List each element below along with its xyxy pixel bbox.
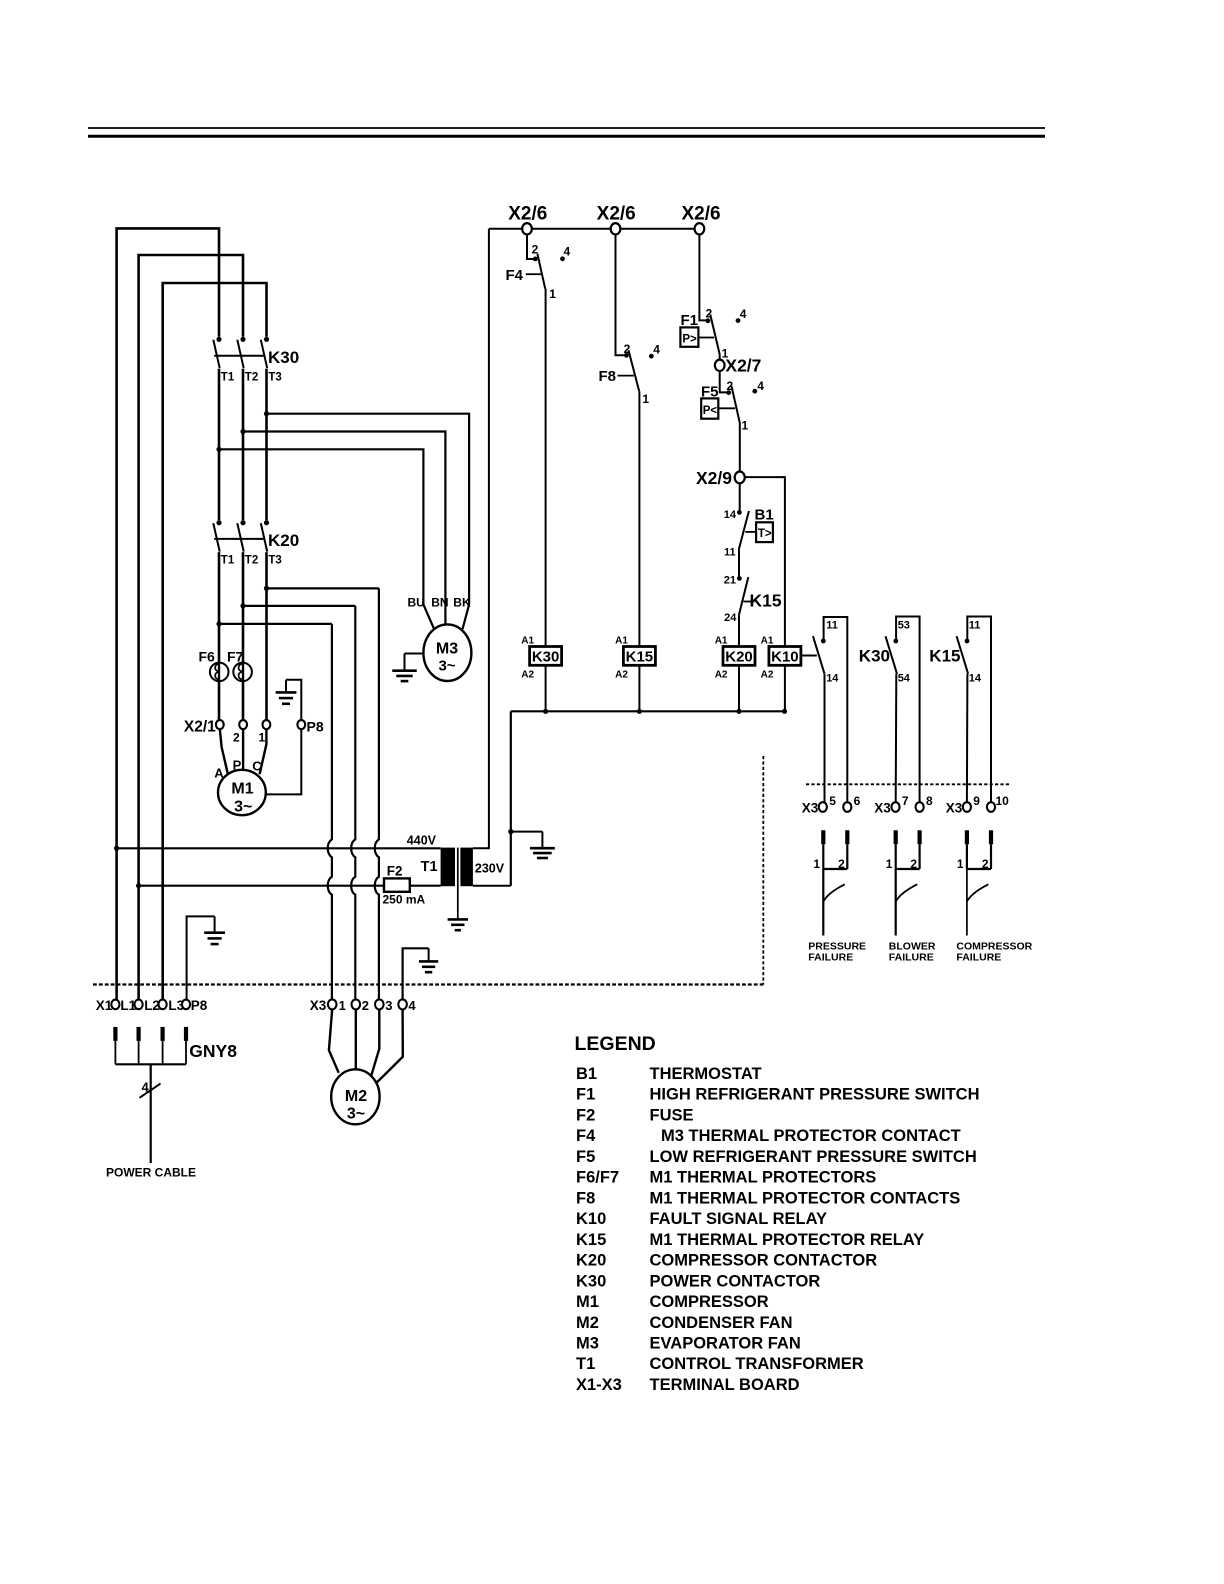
- svg-text:14: 14: [724, 509, 737, 521]
- wire F8 to K15 coil: [638, 391, 640, 646]
- svg-text:M1 THERMAL PROTECTOR CONTACTS: M1 THERMAL PROTECTOR CONTACTS: [650, 1189, 961, 1207]
- wire M1 frame to X2/P8: [266, 729, 302, 795]
- label T1: [421, 859, 438, 875]
- transformer T1 primary winding: [441, 848, 455, 887]
- label X3 bottom: [310, 998, 327, 1013]
- legend row T1: [576, 1355, 864, 1373]
- label pin 14 of K15 contact: [969, 673, 982, 685]
- legend row M1: [576, 1293, 769, 1311]
- terminal X2/6 c: [695, 223, 705, 234]
- svg-text:COMPRESSOR: COMPRESSOR: [956, 940, 1032, 952]
- svg-text:54: 54: [898, 673, 911, 685]
- label pin 4 of F4: [560, 245, 570, 262]
- svg-text:14: 14: [969, 673, 982, 685]
- label COMPRESSOR FAILURE: [956, 940, 1032, 963]
- label X2/9: [696, 468, 732, 488]
- cabinet boundary dashed line bottom: [93, 983, 763, 985]
- svg-text:1: 1: [258, 731, 265, 745]
- label K15 auxiliary: [929, 647, 960, 666]
- label pin 1 of F5: [742, 418, 749, 432]
- svg-text:X3: X3: [802, 801, 819, 816]
- wire B1 to K15 contact: [738, 550, 740, 579]
- wire K30 T3 to K20 input: [264, 369, 269, 521]
- svg-text:F8: F8: [599, 368, 617, 385]
- svg-text:M1 THERMAL PROTECTORS: M1 THERMAL PROTECTORS: [650, 1169, 877, 1187]
- label pin 1 of F8: [642, 392, 649, 406]
- svg-text:GNY8: GNY8: [189, 1041, 237, 1061]
- label pin 54 of K30 contact: [898, 673, 911, 685]
- svg-text:8: 8: [926, 794, 933, 808]
- pressure symbol box of F5: [701, 398, 735, 418]
- cabinet boundary dashed line vertical: [762, 756, 764, 985]
- svg-text:F6/F7: F6/F7: [576, 1169, 619, 1187]
- label terminal number 6: [854, 794, 861, 808]
- svg-text:1: 1: [339, 998, 346, 1013]
- label pin 2 of F8: [624, 342, 631, 356]
- wire F7 to X2/1-P: [242, 681, 245, 721]
- svg-text:14: 14: [826, 673, 839, 685]
- svg-text:2: 2: [982, 857, 989, 871]
- svg-text:FAILURE: FAILURE: [956, 952, 1001, 964]
- pin T3 of K30: [268, 372, 281, 384]
- node 14 of B1: [724, 509, 742, 521]
- terminal X3/4: [398, 999, 407, 1009]
- svg-text:LOW REFRIGERANT PRESSURE SWITC: LOW REFRIGERANT PRESSURE SWITCH: [650, 1148, 977, 1166]
- svg-text:POWER CABLE: POWER CABLE: [106, 1165, 196, 1179]
- label 2: [233, 731, 240, 745]
- svg-text:T1: T1: [576, 1355, 595, 1373]
- wire X2/1-1 to M1: [260, 729, 267, 774]
- wire X2/6 feed to T1 secondary: [473, 229, 489, 849]
- label pin 4 of F8: [649, 342, 660, 358]
- label pin 24 of K15 contact: [724, 612, 737, 624]
- legend row F5: [576, 1148, 977, 1166]
- wire K20 T2 down to F7: [240, 552, 245, 663]
- svg-text:M1: M1: [576, 1293, 599, 1311]
- svg-text:COMPRESSOR CONTACTOR: COMPRESSOR CONTACTOR: [650, 1252, 878, 1270]
- label pin 2 of F4: [532, 243, 539, 257]
- label 1 of X3: [339, 998, 346, 1013]
- wire X2/1-2 to M1: [242, 729, 244, 770]
- svg-text:FAILURE: FAILURE: [808, 952, 853, 964]
- label P8: [307, 719, 324, 735]
- label X2/1: [184, 719, 216, 736]
- svg-text:K20: K20: [576, 1252, 606, 1270]
- svg-text:5: 5: [829, 794, 836, 808]
- wire L1 phase from X1/L1 up to K30 T1 input: [117, 228, 219, 1000]
- transformer T1 secondary winding: [460, 848, 473, 887]
- terminal X2/1: [216, 720, 224, 729]
- label X1: [96, 998, 113, 1013]
- svg-text:11: 11: [826, 620, 838, 632]
- relay coil K30: [521, 636, 561, 681]
- svg-text:4: 4: [757, 379, 764, 393]
- label F6: [199, 648, 216, 664]
- wire coil return bus: [511, 710, 785, 712]
- label pin 11 of B1: [724, 547, 736, 559]
- svg-text:X2/9: X2/9: [696, 468, 732, 488]
- label terminal number 8: [926, 794, 933, 808]
- svg-text:21: 21: [724, 574, 736, 586]
- svg-text:K15: K15: [626, 648, 654, 665]
- svg-text:BN: BN: [431, 595, 448, 609]
- svg-text:K20: K20: [725, 648, 753, 665]
- label X2/7: [725, 355, 761, 375]
- svg-text:BU: BU: [408, 595, 425, 609]
- contact F4 blade: [537, 254, 545, 289]
- legend row X1-X3: [576, 1376, 800, 1394]
- label K20: [268, 531, 299, 550]
- svg-text:HIGH REFRIGERANT PRESSURE SWIT: HIGH REFRIGERANT PRESSURE SWITCH: [650, 1086, 980, 1104]
- svg-text:1: 1: [742, 418, 749, 432]
- wire X2/9 down to B1: [739, 483, 741, 513]
- svg-text:X3: X3: [946, 801, 963, 816]
- svg-text:P>: P>: [682, 333, 697, 345]
- svg-text:A2: A2: [615, 669, 628, 680]
- terminal X3/2: [352, 999, 361, 1009]
- label BU: [408, 595, 425, 609]
- wire L3 phase from X1/L3 up to K30 T3 input: [163, 283, 267, 1000]
- svg-text:X3: X3: [310, 998, 327, 1013]
- fuse F2: [383, 864, 426, 907]
- label pin 14 of K10 contact: [826, 673, 839, 685]
- label pin 1 of F4: [549, 287, 556, 301]
- svg-text:FUSE: FUSE: [650, 1107, 694, 1125]
- relay coil K15: [615, 636, 655, 681]
- svg-text:24: 24: [724, 612, 737, 624]
- terminal X2/7: [715, 360, 725, 371]
- svg-text:1: 1: [642, 392, 649, 406]
- ground at control circuit: [511, 832, 555, 858]
- label pin 4 of F5: [752, 379, 764, 393]
- legend title: [575, 1033, 656, 1055]
- power cable GNY8: [113, 1027, 188, 1163]
- wire branch K20-T3 to X3/3: [267, 588, 379, 999]
- wire K20 A2 to bus: [736, 665, 741, 714]
- wire T1 secondary to bus return: [473, 885, 511, 887]
- thermostat symbol box of B1: [745, 522, 773, 542]
- terminal X1/L1: [111, 1000, 119, 1010]
- relay coil K20: [715, 636, 755, 681]
- label GNY8: [189, 1041, 237, 1061]
- label K15 contact: [750, 590, 782, 610]
- label A: [214, 766, 224, 781]
- svg-text:F1: F1: [576, 1086, 595, 1104]
- svg-text:T3: T3: [268, 555, 281, 567]
- label X3 compressor pair: [946, 801, 963, 816]
- svg-text:K20: K20: [268, 531, 299, 550]
- wire K15 A2 to bus: [637, 665, 642, 714]
- label 440V: [407, 834, 437, 848]
- svg-text:A1: A1: [761, 636, 774, 647]
- svg-text:4: 4: [653, 342, 660, 356]
- svg-text:2: 2: [910, 857, 917, 871]
- external blower failure circuit: [886, 830, 922, 935]
- terminal X2/6 a: [522, 223, 532, 234]
- svg-text:M2: M2: [576, 1314, 599, 1332]
- label C: [252, 759, 262, 774]
- terminal X3/10: [987, 802, 995, 812]
- label X2/6 a: [508, 204, 547, 225]
- label pin 11 of K15 contact: [969, 620, 981, 632]
- label 1: [258, 731, 265, 745]
- svg-text:6: 6: [854, 794, 861, 808]
- svg-text:A2: A2: [715, 669, 728, 680]
- wire F5 to X2/9: [739, 422, 741, 472]
- svg-text:P8: P8: [307, 719, 324, 735]
- contact K15 auxiliary: [957, 617, 991, 803]
- svg-text:B1: B1: [576, 1065, 597, 1083]
- wire F2 to T1 primary: [410, 885, 441, 887]
- label BN: [431, 595, 448, 609]
- svg-text:M2: M2: [345, 1088, 367, 1105]
- svg-text:K10: K10: [771, 648, 799, 665]
- motor M2: [331, 1069, 379, 1124]
- motor M3: [423, 624, 471, 681]
- svg-text:230V: 230V: [475, 862, 505, 876]
- legend row F6/F7: [576, 1169, 876, 1187]
- svg-text:440V: 440V: [407, 834, 437, 848]
- svg-text:F5: F5: [576, 1148, 595, 1166]
- terminal X2/1-1: [262, 720, 270, 729]
- svg-text:K15: K15: [929, 647, 960, 666]
- svg-text:T2: T2: [245, 555, 258, 567]
- label L3: [168, 998, 184, 1013]
- svg-text:X2/6: X2/6: [508, 204, 547, 225]
- wire F6 to X2/1-A: [218, 681, 221, 721]
- svg-text:X2/1: X2/1: [184, 719, 216, 736]
- svg-text:11: 11: [724, 547, 736, 559]
- svg-text:LEGEND: LEGEND: [575, 1033, 656, 1055]
- contactor K20 main contacts: [213, 520, 269, 551]
- ground at X1/P8: [187, 916, 225, 1000]
- label F4: [506, 267, 542, 284]
- label pin 4 of F1: [736, 307, 747, 323]
- label pin 2 of F5: [726, 379, 733, 393]
- svg-text:T>: T>: [758, 528, 772, 540]
- svg-text:9: 9: [973, 794, 980, 808]
- svg-text:L1: L1: [120, 998, 136, 1013]
- terminal X2/P8: [297, 720, 305, 729]
- wire X3/4 to M2: [375, 1009, 403, 1084]
- node 21 of K15 contact: [724, 574, 742, 586]
- label F8: [599, 368, 634, 385]
- svg-text:4: 4: [408, 998, 416, 1013]
- label L1: [120, 998, 136, 1013]
- svg-text:T1: T1: [221, 372, 235, 384]
- contact K10 auxiliary: [801, 617, 847, 803]
- svg-text:P8: P8: [191, 998, 208, 1013]
- svg-text:X3: X3: [874, 801, 891, 816]
- terminal X3/9: [963, 802, 971, 812]
- svg-text:10: 10: [996, 794, 1010, 808]
- label F1: [681, 312, 699, 329]
- label terminal number 9: [973, 794, 980, 808]
- svg-text:F2: F2: [576, 1107, 595, 1125]
- label terminal number 5: [829, 794, 836, 808]
- svg-text:250 mA: 250 mA: [383, 892, 426, 906]
- terminal X1/P8: [182, 1000, 190, 1010]
- svg-text:X2/6: X2/6: [681, 204, 720, 225]
- legend row F8: [576, 1189, 960, 1207]
- pressure symbol box of F1: [680, 327, 714, 346]
- legend row M3: [576, 1335, 801, 1353]
- wire X2/6c to F1: [699, 234, 710, 323]
- svg-text:C: C: [252, 759, 262, 774]
- svg-text:T1: T1: [421, 859, 438, 875]
- svg-text:K10: K10: [576, 1210, 606, 1228]
- label terminal number 7: [902, 794, 909, 808]
- legend row K30: [576, 1272, 820, 1290]
- ground at M3: [392, 654, 423, 682]
- external pressure failure circuit: [813, 830, 849, 935]
- svg-text:BLOWER: BLOWER: [889, 940, 936, 952]
- svg-text:1: 1: [886, 857, 893, 871]
- svg-text:X1-X3: X1-X3: [576, 1376, 622, 1394]
- terminal X3/6: [843, 802, 851, 812]
- svg-text:2: 2: [233, 731, 240, 745]
- legend row K10: [576, 1210, 827, 1228]
- svg-text:EVAPORATOR FAN: EVAPORATOR FAN: [650, 1335, 801, 1353]
- svg-text:K15: K15: [750, 590, 782, 610]
- svg-text:M1: M1: [231, 781, 253, 798]
- svg-text:M3: M3: [436, 641, 458, 658]
- svg-text:PRESSURE: PRESSURE: [808, 940, 866, 952]
- label BLOWER FAILURE: [889, 940, 936, 963]
- contactor K30 main contacts: [213, 337, 269, 369]
- wire X2/1-A to M1: [220, 729, 228, 774]
- wire bus to T1 secondary: [508, 711, 513, 885]
- label B1: [755, 507, 774, 524]
- svg-text:M1 THERMAL PROTECTOR RELAY: M1 THERMAL PROTECTOR RELAY: [650, 1231, 925, 1249]
- svg-text:F8: F8: [576, 1189, 595, 1207]
- wire K30 T1 to K20 input: [216, 369, 221, 521]
- terminal X3/3: [375, 999, 384, 1009]
- terminal X1/L3: [159, 1000, 167, 1010]
- svg-text:F6: F6: [199, 648, 216, 664]
- svg-text:F4: F4: [506, 267, 524, 284]
- wire branch to M3 BK: [267, 414, 470, 630]
- svg-text:3~: 3~: [234, 799, 252, 816]
- svg-text:4: 4: [142, 1079, 150, 1094]
- svg-text:2: 2: [362, 998, 369, 1013]
- label pin 53 of K30 contact: [898, 620, 910, 632]
- wire branch to M3 BU: [219, 449, 434, 628]
- label pin 2 of F1: [705, 307, 712, 321]
- svg-text:A1: A1: [715, 636, 728, 647]
- wire branch K20-T2 to X3/2: [243, 606, 355, 1000]
- wire K15 contact to K20 coil: [738, 616, 740, 647]
- terminal X1/L2: [135, 1000, 143, 1010]
- svg-text:F4: F4: [576, 1127, 596, 1145]
- ground at X2/P8: [276, 680, 302, 721]
- motor M1: [218, 770, 266, 816]
- wire K20 T1 down to F6: [216, 552, 221, 663]
- wire K30 A2 to bus: [543, 665, 548, 714]
- terminal X2/6 b: [611, 223, 621, 234]
- wire X2/9 to K10 coil: [745, 477, 785, 646]
- label P8 of X1: [191, 998, 208, 1013]
- transformer core and ground: [448, 848, 468, 931]
- external compressor failure circuit: [957, 830, 993, 935]
- svg-text:P<: P<: [703, 405, 718, 417]
- label BK: [453, 595, 471, 609]
- wire X2/6b to F8: [616, 234, 629, 358]
- contact K30 auxiliary: [886, 617, 920, 803]
- svg-text:53: 53: [898, 620, 910, 632]
- svg-text:T2: T2: [245, 372, 258, 384]
- legend row F4: [576, 1127, 961, 1145]
- label POWER CABLE: [106, 1165, 196, 1179]
- label 230V: [475, 862, 505, 876]
- svg-text:7: 7: [902, 794, 909, 808]
- wire K10 A2 to bus: [782, 665, 787, 714]
- label X2/6 c: [681, 204, 720, 225]
- thermal protector F6: [210, 663, 229, 682]
- svg-text:COMPRESSOR: COMPRESSOR: [650, 1293, 769, 1311]
- svg-text:T1: T1: [221, 555, 235, 567]
- legend row K15: [576, 1231, 924, 1249]
- terminal X3/8: [916, 802, 924, 812]
- label pin 11 of K10 contact: [826, 620, 838, 632]
- contact F1 blade: [710, 314, 720, 360]
- label 4 of X3: [408, 998, 416, 1013]
- wire branch to M3 BN: [243, 432, 445, 625]
- svg-text:1: 1: [549, 287, 556, 301]
- svg-text:X1: X1: [96, 998, 113, 1013]
- label pin 1 of F1: [722, 346, 729, 360]
- label F5: [701, 383, 719, 400]
- svg-text:A1: A1: [615, 636, 628, 647]
- wire X3/2 to M2: [355, 1009, 357, 1070]
- svg-text:X2/7: X2/7: [725, 355, 761, 375]
- svg-text:3~: 3~: [347, 1106, 365, 1123]
- legend row F1: [576, 1086, 980, 1104]
- svg-text:A2: A2: [521, 669, 534, 680]
- svg-text:L2: L2: [144, 998, 160, 1013]
- svg-text:K30: K30: [532, 648, 560, 665]
- wire X2/6 bus: [489, 228, 700, 230]
- label F7: [227, 648, 244, 664]
- svg-text:K15: K15: [576, 1231, 606, 1249]
- wire K30 T2 to K20 input: [240, 369, 245, 521]
- svg-text:CONTROL TRANSFORMER: CONTROL TRANSFORMER: [650, 1355, 864, 1373]
- svg-text:CONDENSER FAN: CONDENSER FAN: [650, 1314, 793, 1332]
- label X2/6 b: [597, 204, 636, 225]
- svg-text:A2: A2: [761, 669, 774, 680]
- label K30: [268, 348, 299, 367]
- legend row M2: [576, 1314, 793, 1332]
- svg-text:F2: F2: [387, 864, 403, 879]
- wire branch K20-T1 to X3/1: [219, 624, 332, 1000]
- svg-text:3: 3: [385, 998, 392, 1013]
- svg-text:FAILURE: FAILURE: [889, 952, 934, 964]
- svg-text:BK: BK: [453, 595, 471, 609]
- svg-text:4: 4: [740, 307, 747, 321]
- svg-text:M3: M3: [576, 1335, 599, 1353]
- svg-text:B1: B1: [755, 507, 774, 524]
- label terminal number 10: [996, 794, 1010, 808]
- pin T2 of K20: [245, 555, 258, 567]
- svg-text:2: 2: [838, 857, 845, 871]
- pin T1 of K30: [221, 372, 235, 384]
- svg-text:THERMOSTAT: THERMOSTAT: [650, 1065, 762, 1083]
- svg-text:FAULT SIGNAL RELAY: FAULT SIGNAL RELAY: [650, 1210, 828, 1228]
- label L2: [144, 998, 160, 1013]
- svg-text:3~: 3~: [438, 658, 455, 675]
- terminal X3/5: [819, 802, 827, 812]
- label X3 pressure pair: [802, 801, 819, 816]
